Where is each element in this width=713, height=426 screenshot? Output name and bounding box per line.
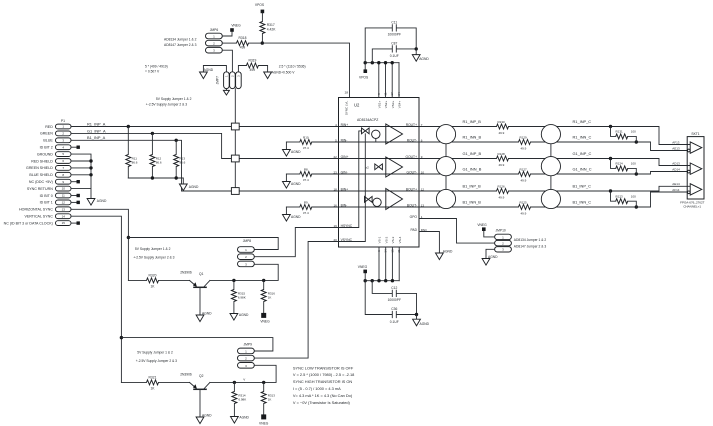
svg-text:R1_INP_C: R1_INP_C bbox=[573, 119, 592, 124]
wire VSYNC branch to JMP9 pin1 bbox=[121, 338, 273, 351]
svg-text:AE13: AE13 bbox=[672, 146, 680, 150]
svg-text:ID BIT 1: ID BIT 1 bbox=[40, 201, 53, 205]
svg-text:R319: R319 bbox=[248, 58, 256, 62]
svg-text:VNEG: VNEG bbox=[259, 421, 269, 425]
svg-text:37.4: 37.4 bbox=[303, 146, 309, 150]
svg-text:86.6: 86.6 bbox=[132, 161, 138, 165]
ground AGND (right of R319) bbox=[264, 72, 272, 79]
U2 internal B-channel attenuator + summer + amp bbox=[365, 189, 403, 210]
wire termination ground rail bbox=[128, 178, 183, 184]
svg-text:GOUT-: GOUT- bbox=[407, 170, 417, 174]
svg-text:AF13: AF13 bbox=[672, 140, 680, 144]
svg-text:11: 11 bbox=[62, 194, 65, 198]
annotation FPGA channel bbox=[680, 200, 705, 208]
svg-text:86.6: 86.6 bbox=[180, 161, 186, 165]
svg-text:HORIZONTAL SYNC: HORIZONTAL SYNC bbox=[19, 208, 53, 212]
svg-text:R1_INN_C: R1_INN_C bbox=[573, 135, 592, 140]
node bus junctions bbox=[89, 159, 92, 162]
svg-text:15: 15 bbox=[390, 249, 394, 253]
ground AGND (Q2 base) bbox=[196, 417, 204, 424]
svg-text:I = (5 - 0.7) / 1000 = 4.3 mA: I = (5 - 0.7) / 1000 = 4.3 mA bbox=[293, 386, 341, 391]
svg-text:AGND: AGND bbox=[97, 199, 107, 203]
resistor R129 49.9 bbox=[519, 135, 531, 150]
svg-text:AD8134 Jumper 1 & 2: AD8134 Jumper 1 & 2 bbox=[164, 37, 197, 41]
wire Q1 collector rail to JMP8 pin3 bbox=[210, 264, 278, 280]
wire HSYNC branch to JMP8 pin1 bbox=[128, 238, 278, 250]
resistor R130 49.9 bbox=[497, 120, 509, 135]
labels SKT1 input pins bbox=[672, 140, 680, 192]
jumper square on GREEN row bbox=[231, 155, 239, 162]
svg-text:+-2.5V Supply Jumper 2 & 3: +-2.5V Supply Jumper 2 & 3 bbox=[133, 256, 174, 260]
svg-text:B1_INN_C: B1_INN_C bbox=[573, 200, 592, 205]
wire JMP7 to input jumper squares chain bbox=[234, 89, 236, 188]
resistor R13 (BLUE termination) bbox=[174, 139, 186, 178]
svg-text:R125: R125 bbox=[520, 200, 528, 204]
svg-text:R8: R8 bbox=[304, 168, 308, 172]
U2 top supply pins VS1+..VS4+ bbox=[377, 63, 402, 109]
svg-text:AGND: AGND bbox=[291, 182, 301, 186]
resistor R321 1K bbox=[121, 375, 189, 390]
svg-text:AGND: AGND bbox=[443, 250, 453, 254]
svg-text:NC (DDC +5V): NC (DDC +5V) bbox=[29, 180, 53, 184]
svg-text:P1: P1 bbox=[61, 119, 65, 123]
svg-text:1K: 1K bbox=[150, 285, 155, 289]
power flag VNEG (R316) bbox=[260, 313, 270, 324]
ground AGND (JMP10) bbox=[482, 259, 490, 266]
transformer circle B at x=446.0 bbox=[436, 189, 455, 208]
svg-text:B1_INN_B: B1_INN_B bbox=[463, 200, 482, 205]
svg-text:49.9: 49.9 bbox=[521, 211, 527, 215]
resistor R314 6.98K bbox=[232, 382, 246, 416]
labels _B nets bbox=[463, 119, 482, 205]
svg-text:GREEN SHIELD: GREEN SHIELD bbox=[26, 166, 53, 170]
svg-text:499: 499 bbox=[240, 46, 246, 50]
resistor R9 (207) to AGND bbox=[286, 201, 419, 215]
svg-text:G1_INP_C: G1_INP_C bbox=[573, 151, 592, 156]
svg-text:GROUND: GROUND bbox=[37, 152, 53, 156]
svg-text:37.4: 37.4 bbox=[303, 211, 309, 215]
svg-text:49.9: 49.9 bbox=[521, 178, 527, 182]
svg-text:Q2: Q2 bbox=[199, 374, 204, 378]
svg-text:GOUT+: GOUT+ bbox=[406, 155, 418, 159]
svg-text:AD8147 Jumper 2 & 3: AD8147 Jumper 2 & 3 bbox=[164, 43, 197, 47]
svg-text:VPOS: VPOS bbox=[359, 75, 369, 79]
node VSYNC branch bbox=[120, 336, 123, 339]
svg-text:VS-2: VS-2 bbox=[384, 236, 388, 243]
wire JMP7 pin3 to R319 bbox=[238, 66, 246, 72]
svg-text:37.4: 37.4 bbox=[303, 178, 309, 182]
svg-text:6.98K: 6.98K bbox=[238, 296, 246, 300]
wire net HORIZONTAL SYNC from P1 pin13 bbox=[71, 209, 128, 280]
svg-text:JMP10: JMP10 bbox=[496, 229, 506, 233]
svg-text:R320: R320 bbox=[149, 273, 157, 277]
svg-text:VS-3: VS-3 bbox=[391, 236, 395, 243]
wire Q2 collector rail to JMP9 pin3 bbox=[210, 365, 276, 382]
capacitor C87 0.1UF bbox=[372, 41, 416, 62]
ground AGND (R315) bbox=[230, 314, 238, 321]
svg-text:= 0.507 V: = 0.507 V bbox=[145, 69, 160, 73]
transformer circle G at x=550.9 bbox=[541, 157, 560, 176]
svg-text:17: 17 bbox=[390, 92, 394, 96]
svg-text:R1_INN_B: R1_INN_B bbox=[463, 135, 482, 140]
buffer triangle 1 in SKT1 bbox=[690, 142, 702, 153]
wire JMP6 pin3 to JMP7 pin2 bbox=[222, 50, 232, 72]
power flag VPOS (rail) bbox=[359, 63, 369, 80]
svg-text:49.9: 49.9 bbox=[521, 146, 527, 150]
svg-text:R1_INP_B: R1_INP_B bbox=[463, 119, 482, 124]
svg-text:R131: R131 bbox=[616, 130, 624, 134]
svg-text:1K: 1K bbox=[268, 296, 272, 300]
wire VNEG supply rail bbox=[365, 280, 399, 282]
svg-text:GREEN: GREEN bbox=[40, 132, 53, 136]
jumper square on RED row bbox=[231, 123, 239, 130]
svg-text:VS3+: VS3+ bbox=[391, 101, 395, 109]
svg-text:AD8134ACPZ: AD8134ACPZ bbox=[357, 118, 378, 122]
svg-text:R130: R130 bbox=[498, 120, 506, 124]
svg-text:1K: 1K bbox=[150, 387, 155, 391]
U2 right pin labels bbox=[406, 123, 428, 232]
svg-text:13: 13 bbox=[62, 207, 66, 211]
transistor Q2 2N3906 bbox=[180, 372, 210, 417]
wire JMP9 pin2 to U2 pin20 bbox=[254, 242, 338, 359]
svg-text:AGND: AGND bbox=[189, 185, 199, 189]
svg-text:0.1UF: 0.1UF bbox=[390, 54, 399, 58]
svg-text:100: 100 bbox=[631, 194, 636, 198]
svg-text:+-2.5V Supply Jumper 2 & 3: +-2.5V Supply Jumper 2 & 3 bbox=[136, 359, 177, 363]
svg-text:ROUT+: ROUT+ bbox=[406, 123, 417, 127]
svg-text:C87: C87 bbox=[391, 41, 397, 45]
svg-text:49.9: 49.9 bbox=[499, 131, 505, 135]
resistor R124 100 (diff termination) bbox=[609, 157, 638, 176]
svg-text:23: 23 bbox=[333, 170, 337, 174]
svg-text:JMP8: JMP8 bbox=[243, 239, 252, 243]
svg-text:R127: R127 bbox=[520, 167, 528, 171]
wire JMP6 pin1 to VNEG bbox=[222, 32, 232, 36]
svg-text:R124: R124 bbox=[616, 162, 624, 166]
svg-text:B1_INP_C: B1_INP_C bbox=[573, 184, 592, 189]
svg-text:B1_INP_B: B1_INP_B bbox=[463, 184, 482, 189]
svg-text:GIN+: GIN+ bbox=[341, 155, 349, 159]
U2 left pin labels bbox=[333, 123, 352, 242]
ground AGND (R314) bbox=[231, 417, 239, 424]
svg-text:NC (ID BIT 3 or DATA CLOCK): NC (ID BIT 3 or DATA CLOCK) bbox=[4, 221, 53, 225]
resistor R318 bbox=[222, 36, 262, 49]
ground AGND (left of JMP7) bbox=[200, 72, 208, 79]
resistor R126 49.9 bbox=[497, 184, 509, 199]
capacitor C11 10000PF bbox=[365, 20, 416, 62]
svg-text:G1_INP_A: G1_INP_A bbox=[87, 128, 106, 133]
annotation 0.5V reference bbox=[272, 64, 306, 74]
capacitor C12 10000PF bbox=[372, 281, 416, 315]
svg-text:24: 24 bbox=[397, 92, 401, 96]
svg-text:RIN-: RIN- bbox=[341, 138, 348, 142]
svg-text:49.9: 49.9 bbox=[499, 195, 505, 199]
svg-text:AE14: AE14 bbox=[672, 182, 680, 186]
svg-text:BIN+: BIN+ bbox=[341, 187, 348, 191]
svg-text:VNEG: VNEG bbox=[477, 223, 487, 227]
svg-text:JMP6: JMP6 bbox=[210, 28, 219, 32]
ground AGND (bottom decoupling) bbox=[416, 315, 418, 320]
jumper JMP10 bbox=[495, 229, 512, 252]
svg-text:BOUT+: BOUT+ bbox=[406, 187, 417, 191]
svg-text:AGND: AGND bbox=[202, 312, 212, 316]
jumper JMP9 bbox=[238, 343, 255, 369]
svg-text:VS-4: VS-4 bbox=[398, 236, 402, 243]
svg-text:AGND: AGND bbox=[291, 215, 301, 219]
svg-text:22: 22 bbox=[333, 155, 337, 159]
power flag VNEG (JMP6 pin1) bbox=[230, 24, 241, 32]
svg-text:BLUE SHIELD: BLUE SHIELD bbox=[29, 173, 53, 177]
svg-text:2N3906: 2N3906 bbox=[180, 270, 192, 274]
svg-text:15: 15 bbox=[62, 221, 66, 225]
ground AGND (PAD) bbox=[436, 253, 444, 260]
transformer circle B at x=550.9 bbox=[541, 189, 560, 208]
svg-text:AGND: AGND bbox=[239, 313, 249, 317]
svg-text:SKT1: SKT1 bbox=[691, 132, 699, 136]
connector SKT1 outline bbox=[687, 137, 704, 199]
svg-text:+-2.5V Supply Jumper 2 & 3: +-2.5V Supply Jumper 2 & 3 bbox=[146, 102, 187, 106]
svg-text:AGND: AGND bbox=[419, 57, 429, 61]
U2 internal R-channel attenuator + summer + amp bbox=[362, 124, 403, 144]
ground AGND (terminations) bbox=[179, 184, 187, 191]
jumper square on BLUE row bbox=[231, 188, 239, 195]
resistor R8 (174) to AGND bbox=[286, 168, 419, 182]
svg-text:R317: R317 bbox=[267, 23, 275, 27]
svg-text:SYNC LOW TRANSISTOR IS OFF: SYNC LOW TRANSISTOR IS OFF bbox=[293, 365, 354, 370]
svg-text:VPOS: VPOS bbox=[255, 3, 265, 7]
resistor R125 49.9 bbox=[519, 200, 531, 215]
transformer circle R at x=446.0 bbox=[436, 125, 455, 144]
transformer circle G at x=446.0 bbox=[436, 157, 455, 176]
svg-text:28: 28 bbox=[345, 91, 349, 95]
resistor R313 1K bbox=[261, 382, 275, 414]
svg-text:10000PF: 10000PF bbox=[388, 32, 401, 36]
wire row BOUT- chain bbox=[419, 192, 687, 207]
svg-text:R321: R321 bbox=[149, 375, 157, 379]
annotation supply jumper (JMP7) bbox=[146, 97, 192, 106]
svg-text:C11: C11 bbox=[391, 20, 397, 24]
svg-text:ID BIT 0: ID BIT 0 bbox=[40, 194, 53, 198]
resistor R123 100 (diff termination) bbox=[609, 189, 638, 208]
svg-text:AGND: AGND bbox=[202, 414, 212, 418]
wire VPOS supply rail bbox=[365, 62, 399, 64]
power flag VNEG (JMP10 pin1) bbox=[477, 223, 494, 237]
svg-text:ROUT-: ROUT- bbox=[407, 138, 417, 142]
svg-text:V = ~0V (Transistor Is Saturat: V = ~0V (Transistor Is Saturated) bbox=[293, 400, 351, 405]
svg-text:AGND: AGND bbox=[291, 150, 301, 154]
svg-text:SYNC LVL: SYNC LVL bbox=[345, 101, 349, 116]
wire JMP8 pin2 to U2 pin19 bbox=[254, 228, 338, 257]
svg-text:RIN+: RIN+ bbox=[341, 123, 349, 127]
svg-text:VS1+: VS1+ bbox=[377, 101, 381, 109]
svg-text:C12: C12 bbox=[391, 286, 397, 290]
resistor R12 (GREEN termination) bbox=[150, 132, 162, 178]
annotation supply jumper (Q2) bbox=[136, 351, 177, 363]
svg-text:2N3906: 2N3906 bbox=[180, 372, 192, 376]
wire ground bus pins 5-8,10 bbox=[71, 154, 91, 198]
resistor R316 1K bbox=[261, 280, 275, 313]
node C11/C87 junction bbox=[415, 47, 418, 50]
resistor R315 6.98K bbox=[231, 280, 245, 313]
svg-text:R1_INP_A: R1_INP_A bbox=[87, 121, 106, 126]
svg-text:499: 499 bbox=[250, 68, 256, 72]
power flag VNEG (R313) bbox=[259, 414, 269, 425]
wire row GOUT- chain bbox=[419, 172, 687, 175]
svg-text:VS4+: VS4+ bbox=[398, 101, 402, 109]
capacitor C36 0.1UF bbox=[365, 281, 416, 324]
wire row GOUT+ chain bbox=[419, 159, 690, 166]
svg-text:AD8147 Jumper 2 & 3: AD8147 Jumper 2 & 3 bbox=[514, 245, 547, 249]
svg-text:5V Supply Jumper 1 & 2: 5V Supply Jumper 1 & 2 bbox=[156, 97, 192, 101]
buffer triangle 2 in SKT1 bbox=[690, 163, 702, 174]
svg-text:x2: x2 bbox=[366, 165, 370, 169]
svg-text:GIN-: GIN- bbox=[341, 170, 348, 174]
svg-text:JMP9: JMP9 bbox=[244, 343, 253, 347]
connector P1 bbox=[4, 119, 71, 225]
svg-text:V= 4.3 mA * 1K = 4.3 (No Can D: V= 4.3 mA * 1K = 4.3 (No Can Do) bbox=[293, 393, 353, 398]
svg-text:VNEG: VNEG bbox=[358, 265, 368, 269]
svg-text:VS-1: VS-1 bbox=[378, 236, 382, 243]
svg-text:AF14: AF14 bbox=[672, 188, 680, 192]
ground AGND (P1 shield bus) bbox=[87, 199, 95, 206]
svg-text:PAD: PAD bbox=[410, 228, 417, 232]
ground AGND (Q1 base) bbox=[196, 315, 204, 322]
power flag VNEG (rail) bbox=[358, 265, 368, 281]
transistor Q1 2N3906 bbox=[180, 270, 210, 315]
svg-text:R128: R128 bbox=[498, 152, 506, 156]
svg-text:49.9: 49.9 bbox=[499, 163, 505, 167]
wire junction to U2 pin 28 bbox=[262, 43, 349, 97]
svg-text:16: 16 bbox=[333, 203, 337, 207]
labels _C nets bbox=[573, 119, 592, 205]
svg-text:G1_INP_B: G1_INP_B bbox=[463, 151, 482, 156]
ground AGND (top decoupling) bbox=[415, 49, 417, 55]
svg-text:1K: 1K bbox=[268, 398, 272, 402]
U2 internal G-channel x2 amp bbox=[366, 157, 403, 177]
resistor R319 bbox=[246, 58, 267, 72]
svg-text:V: V bbox=[243, 377, 245, 381]
svg-text:0.1UF: 0.1UF bbox=[390, 320, 399, 324]
no-connect marks pins 4,9,11,12,15 bbox=[71, 146, 77, 148]
svg-text:SYNC RETURN: SYNC RETURN bbox=[27, 187, 53, 191]
svg-text:AGND: AGND bbox=[420, 322, 430, 326]
wire net R1_INP_A (RED row) bbox=[71, 126, 419, 128]
U2 bottom supply pins VS-1..VS-4 bbox=[377, 236, 402, 280]
annotation supply jumper (Q1) bbox=[133, 247, 174, 260]
resistor R127 49.9 bbox=[519, 167, 531, 182]
svg-text:10000PF: 10000PF bbox=[388, 298, 401, 302]
resistor R320 1K bbox=[128, 273, 189, 288]
svg-text:AGND: AGND bbox=[204, 68, 214, 72]
resistor R10 (142) to AGND bbox=[286, 136, 419, 150]
svg-text:RED SHIELD: RED SHIELD bbox=[31, 159, 53, 163]
svg-text:14: 14 bbox=[62, 214, 66, 218]
svg-text:2.5 * (1110 / 5536): 2.5 * (1110 / 5536) bbox=[279, 64, 306, 68]
wire JMP10 pin3 to AGND bbox=[486, 249, 495, 258]
svg-text:R9: R9 bbox=[304, 201, 308, 205]
svg-text:VNEG: VNEG bbox=[231, 24, 241, 28]
svg-text:AGND: AGND bbox=[239, 415, 249, 419]
svg-text:100: 100 bbox=[631, 162, 636, 166]
svg-text:10: 10 bbox=[62, 187, 66, 191]
U2 internal sync taps to pins 19,20 bbox=[339, 131, 366, 242]
svg-text:AD14: AD14 bbox=[672, 168, 680, 172]
svg-text:14: 14 bbox=[384, 249, 388, 253]
jumper JMP7 (vertical) bbox=[215, 72, 241, 89]
svg-text:VS2+: VS2+ bbox=[384, 101, 388, 109]
power flag VPOS bbox=[255, 3, 265, 22]
svg-text:12: 12 bbox=[62, 201, 66, 205]
svg-text:V = 2.5 * (1000 / 7980) - 2.5: V = 2.5 * (1000 / 7980) - 2.5 = -2.18 bbox=[293, 372, 354, 377]
wire row BOUT+ chain bbox=[419, 186, 690, 191]
ground stub under JMP7 pin1 bbox=[223, 89, 229, 95]
resistor R11 (RED termination) bbox=[126, 125, 138, 178]
svg-text:R126: R126 bbox=[498, 184, 506, 188]
svg-text:4.42K: 4.42K bbox=[267, 28, 276, 32]
svg-text:Q1: Q1 bbox=[199, 272, 204, 276]
wire net B1_INP_A (BLUE row, bends to BIN+) bbox=[71, 140, 419, 191]
svg-text:B1_INP_A: B1_INP_A bbox=[87, 135, 106, 140]
node HSYNC branch bbox=[127, 236, 130, 239]
svg-text:5V Supply Jumper 1 & 2: 5V Supply Jumper 1 & 2 bbox=[137, 351, 173, 355]
svg-text:VNEG: VNEG bbox=[260, 320, 270, 324]
svg-text:BOUT-: BOUT- bbox=[407, 203, 417, 207]
wire U2 PAD to AGND bbox=[419, 232, 439, 254]
svg-text:R123: R123 bbox=[616, 194, 624, 198]
svg-text:C36: C36 bbox=[391, 307, 397, 311]
op-amp U2 AD8134ACPZ outline bbox=[339, 98, 420, 248]
buffer triangle 3 in SKT1 bbox=[690, 184, 702, 195]
svg-text:JMP7: JMP7 bbox=[215, 76, 219, 85]
svg-text:21: 21 bbox=[397, 249, 401, 253]
svg-text:18: 18 bbox=[333, 187, 337, 191]
resistor R317 bbox=[260, 22, 276, 44]
svg-text:VERTICAL SYNC: VERTICAL SYNC bbox=[24, 215, 53, 219]
svg-text:AD8134 Jumper 1 & 2: AD8134 Jumper 1 & 2 bbox=[514, 238, 547, 242]
transformer circle R at x=550.9 bbox=[541, 125, 560, 144]
resistor R128 49.9 bbox=[497, 152, 509, 167]
svg-text:5 * (499 / 4919): 5 * (499 / 4919) bbox=[145, 65, 168, 69]
svg-text:U2: U2 bbox=[354, 103, 360, 108]
svg-text:RED: RED bbox=[45, 125, 53, 129]
svg-text:11: 11 bbox=[384, 92, 388, 95]
annotation AD8134/AD8147 jumper (JMP10) bbox=[514, 238, 547, 249]
svg-text:SYNC HIGH TRANSISTOR IS ON: SYNC HIGH TRANSISTOR IS ON bbox=[293, 379, 352, 384]
annotation 0.507V reference bbox=[145, 65, 168, 74]
svg-text:G1_INN_C: G1_INN_C bbox=[573, 167, 592, 172]
resistor R131 100 (diff termination) bbox=[609, 125, 638, 144]
wire JMP7 pin1 to AGND bbox=[203, 66, 226, 73]
svg-text:GPO: GPO bbox=[410, 215, 418, 219]
svg-text:86.6: 86.6 bbox=[156, 161, 162, 165]
wire row ROUT+ to SKT1 (R1_INP chain) bbox=[419, 127, 690, 145]
svg-text:AGND: AGND bbox=[488, 255, 498, 259]
svg-text:6.98K: 6.98K bbox=[238, 398, 246, 402]
node R317/R318 junction bbox=[261, 41, 264, 44]
node C12/C36 junction bbox=[415, 313, 418, 316]
svg-text:AD13: AD13 bbox=[672, 162, 680, 166]
svg-text:5V Supply Jumper 1 & 2: 5V Supply Jumper 1 & 2 bbox=[135, 247, 171, 251]
annotation AD8134/AD8147 jumper (JMP6) bbox=[164, 37, 197, 47]
svg-text:BIN-: BIN- bbox=[341, 203, 348, 207]
svg-text:CHANNEL+1: CHANNEL+1 bbox=[683, 205, 701, 209]
annotation sync transistor notes bbox=[293, 365, 354, 405]
wire U2 GPO to JMP10 pin2 bbox=[419, 219, 495, 244]
svg-text:ID BIT 2: ID BIT 2 bbox=[40, 146, 53, 150]
svg-text:R10: R10 bbox=[303, 136, 309, 140]
svg-text:G1_INN_B: G1_INN_B bbox=[463, 167, 482, 172]
wire row ROUT- chain bbox=[419, 142, 687, 151]
